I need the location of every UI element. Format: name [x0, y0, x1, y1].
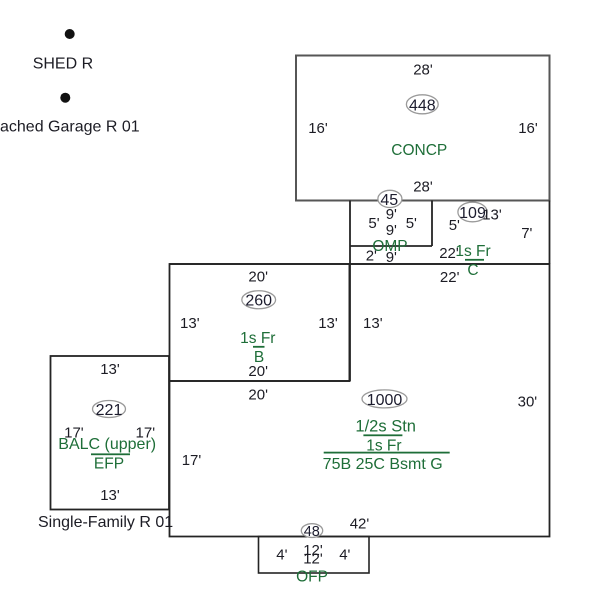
- svg-text:OFP: OFP: [296, 569, 328, 586]
- CONCP area outline: [296, 56, 550, 201]
- svg-text:13': 13': [318, 315, 338, 332]
- wire: horizontal y=264: [170, 263, 550, 265]
- svg-text:1s Fr: 1s Fr: [240, 330, 275, 347]
- OFP area outline: [259, 537, 370, 574]
- B fraction bar: [253, 346, 265, 348]
- svg-text:42': 42': [350, 516, 370, 533]
- svg-text:CONCP: CONCP: [391, 142, 447, 159]
- svg-text:20': 20': [248, 387, 268, 404]
- svg-text:17': 17': [182, 452, 202, 469]
- svg-text:20': 20': [248, 363, 268, 380]
- wire: OMP right: [431, 201, 433, 247]
- BALC fraction bar: [91, 453, 130, 455]
- wire: OMP bottom: [350, 245, 432, 247]
- svg-text:ached Garage R 01: ached Garage R 01: [0, 119, 140, 136]
- svg-text:20': 20': [248, 269, 268, 286]
- svg-text:16': 16': [308, 120, 328, 137]
- svg-text:448: 448: [409, 97, 436, 114]
- svg-text:9': 9': [386, 249, 397, 266]
- svg-text:75B 25C Bsmt G: 75B 25C Bsmt G: [323, 456, 443, 473]
- area bubble 48: [301, 524, 322, 538]
- svg-text:9': 9': [386, 222, 397, 239]
- svg-text:16': 16': [518, 120, 538, 137]
- svg-text:EFP: EFP: [94, 456, 124, 473]
- area bubble 45: [378, 190, 402, 207]
- svg-text:7': 7': [521, 225, 532, 242]
- svg-text:12': 12': [303, 551, 323, 568]
- area bubble 221: [93, 401, 126, 418]
- svg-text:13': 13': [100, 487, 120, 504]
- B area outline: [170, 264, 350, 381]
- svg-text:48: 48: [304, 524, 320, 540]
- main house outline: [170, 264, 550, 537]
- svg-text:BALC (upper): BALC (upper): [58, 436, 156, 453]
- svg-text:Single-Family R 01: Single-Family R 01: [38, 514, 173, 531]
- wire: right edge x=549.5 upper: [549, 201, 551, 265]
- svg-text:1s Fr: 1s Fr: [455, 243, 490, 260]
- svg-text:221: 221: [96, 402, 123, 419]
- svg-text:1000: 1000: [367, 392, 403, 409]
- wire: vertical x=350 (OMP left / B right): [349, 201, 351, 382]
- svg-text:28': 28': [413, 178, 433, 195]
- svg-text:13': 13': [363, 315, 383, 332]
- svg-text:1/2s Stn: 1/2s Stn: [355, 418, 416, 436]
- svg-text:2': 2': [366, 248, 377, 265]
- area bubble 448: [406, 95, 438, 114]
- area bubble 260: [242, 291, 276, 309]
- svg-text:9': 9': [386, 206, 397, 223]
- svg-text:5': 5': [449, 217, 460, 234]
- svg-text:30': 30': [518, 394, 538, 411]
- svg-text:SHED R: SHED R: [33, 56, 93, 73]
- svg-text:13': 13': [180, 315, 200, 332]
- svg-text:C: C: [467, 262, 478, 279]
- svg-text:4': 4': [276, 547, 287, 564]
- svg-text:260: 260: [245, 293, 272, 310]
- C fraction bar: [465, 259, 484, 261]
- svg-text:4': 4': [339, 547, 350, 564]
- area bubble 109: [458, 202, 487, 222]
- svg-text:5': 5': [406, 215, 417, 232]
- svg-text:22': 22': [440, 269, 460, 286]
- detached garage marker dot: [60, 93, 70, 103]
- main fraction bar 1: [363, 434, 402, 436]
- svg-text:13': 13': [482, 207, 502, 224]
- svg-text:13': 13': [100, 361, 120, 378]
- area bubble 1000: [362, 390, 407, 408]
- svg-text:28': 28': [413, 62, 433, 79]
- main fraction bar 2: [324, 452, 450, 454]
- svg-text:5': 5': [368, 215, 379, 232]
- shed marker dot: [65, 29, 75, 39]
- BALC area outline: [51, 356, 170, 510]
